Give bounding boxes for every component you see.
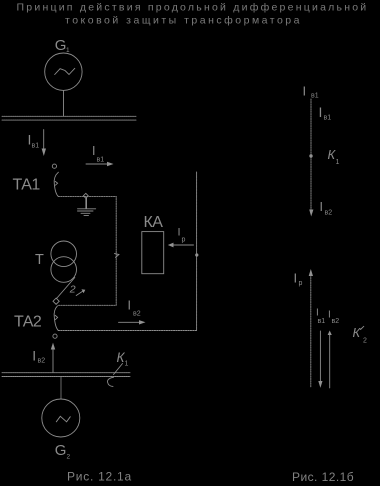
TA1 winding arc	[54, 172, 58, 196]
arrow mark on left secondary wire	[115, 254, 119, 258]
vector diagram a: axis line	[310, 99, 312, 213]
junction dot on right wire	[195, 253, 198, 256]
svg-text:I: I	[178, 227, 181, 239]
svg-text:токовой защиты трансформатора: токовой защиты трансформатора	[65, 15, 302, 27]
svg-text:в2: в2	[325, 210, 333, 217]
TA2 node circle	[53, 334, 57, 338]
svg-text:в2: в2	[332, 318, 340, 325]
fault K1 arrow	[114, 364, 123, 375]
svg-text:1: 1	[336, 159, 340, 166]
busbar 1	[2, 115, 136, 117]
ground bar 1	[78, 208, 96, 210]
svg-text:Принцип действия продольной ди: Принцип действия продольной дифференциал…	[17, 2, 369, 14]
svg-text:в1: в1	[97, 157, 105, 164]
svg-text:I: I	[128, 299, 131, 313]
current arrow I2 up	[52, 349, 54, 373]
transformer T winding 2	[51, 257, 77, 283]
vector diagram a: node dot	[309, 154, 312, 157]
svg-text:I: I	[32, 348, 36, 364]
svg-text:G: G	[55, 442, 67, 459]
TA1 arc arrow mark	[55, 181, 57, 185]
ground bar 4	[84, 215, 89, 217]
svg-text:в1: в1	[32, 143, 40, 150]
svg-text:2: 2	[363, 338, 367, 345]
vector diagram b: K2 tick	[361, 326, 364, 329]
current arrow I1	[43, 130, 45, 149]
G2 sine symbol	[56, 416, 70, 422]
small arrow I2	[76, 291, 83, 296]
svg-text:К: К	[353, 325, 362, 340]
lower secondary wire	[58, 330, 196, 332]
svg-text:р: р	[299, 280, 303, 287]
TA2 winding arc	[54, 306, 58, 331]
arrow Iв2	[119, 321, 140, 323]
svg-text:G: G	[55, 37, 67, 54]
junction diamond at ground tap	[83, 193, 88, 198]
wire G1 to bus1	[63, 90, 65, 116]
svg-text:Т: Т	[35, 252, 44, 268]
generator G2	[42, 399, 80, 437]
svg-text:р: р	[182, 237, 186, 244]
right secondary wire	[196, 172, 198, 331]
svg-text:в1: в1	[311, 93, 319, 100]
ground stub	[85, 198, 87, 208]
svg-text:I: I	[92, 144, 95, 158]
TA1 node circle	[52, 164, 56, 168]
secondary wire CT1 to right	[58, 196, 116, 305]
ground bar 3	[81, 212, 90, 214]
TA2 top diamond node	[53, 298, 59, 304]
svg-text:в2: в2	[133, 311, 141, 318]
svg-text:в2: в2	[38, 358, 46, 365]
svg-text:I: I	[316, 308, 319, 319]
svg-text:2: 2	[67, 454, 71, 461]
svg-text:КА: КА	[144, 214, 164, 231]
vector diagram b: Ip arrow up	[310, 275, 312, 387]
diagonal wire T to TA2	[57, 278, 75, 299]
vector diagram a: bottom arrowhead	[309, 210, 313, 217]
svg-text:1: 1	[125, 361, 129, 368]
vector diagram b: vector Iв2	[329, 334, 331, 388]
transformer T winding 1	[51, 241, 77, 267]
svg-text:в1: в1	[318, 318, 326, 325]
svg-text:I: I	[294, 270, 298, 285]
TA2 arc arrow mark	[55, 315, 57, 319]
generator G1	[45, 53, 82, 90]
relay KA box	[142, 232, 164, 274]
arrow Ip	[173, 244, 194, 246]
svg-text:в1: в1	[324, 115, 332, 122]
svg-text:Рис. 12.1б: Рис. 12.1б	[292, 470, 354, 484]
svg-text:2: 2	[69, 284, 76, 296]
fault K1 hook	[107, 377, 113, 386]
svg-text:ТА1: ТА1	[13, 176, 41, 193]
svg-text:Рис. 12.1а: Рис. 12.1а	[67, 470, 132, 484]
G1 sine symbol	[55, 68, 75, 74]
svg-text:I: I	[319, 104, 323, 120]
svg-text:I: I	[320, 200, 323, 214]
svg-text:ТА2: ТА2	[14, 314, 42, 331]
arrow Iв1	[86, 163, 108, 165]
busbar 2	[2, 372, 130, 374]
ground bar 2	[78, 210, 94, 212]
wire bus2 to G2	[60, 377, 62, 399]
vector diagram b: vector Iв1 down	[319, 331, 321, 382]
svg-text:I: I	[303, 84, 307, 99]
svg-text:I: I	[328, 310, 331, 321]
